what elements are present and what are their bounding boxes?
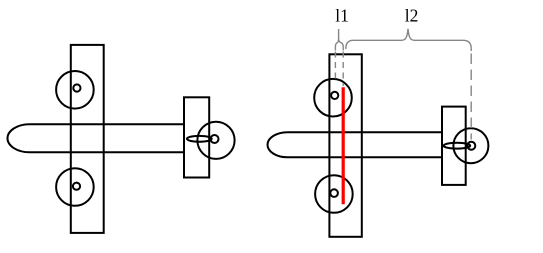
right aircraft wing	[329, 54, 361, 237]
left tailplane	[184, 97, 209, 177]
svg-text:l1: l1	[335, 6, 349, 26]
brace l2	[346, 29, 471, 51]
dashed extension line red line	[342, 52, 344, 87]
right tail propeller hub	[467, 142, 475, 150]
red reference line	[342, 87, 345, 204]
left bottom propeller hub	[73, 183, 80, 190]
right tail propeller blade	[444, 143, 471, 149]
right tailplane	[442, 107, 466, 185]
right bottom propeller hub	[330, 189, 338, 197]
left tail propeller blade	[187, 136, 212, 142]
left top propeller hub	[73, 84, 80, 91]
brace l1	[335, 29, 343, 51]
right bottom propeller disc	[315, 175, 353, 213]
left tail propeller hub	[211, 135, 219, 143]
left tail propeller disc	[197, 122, 234, 159]
dashed extension line engine axis	[334, 52, 336, 82]
left top propeller disc	[56, 71, 94, 109]
svg-text:l2: l2	[405, 6, 419, 26]
left aircraft fuselage	[8, 124, 185, 152]
right tail propeller disc	[453, 128, 488, 163]
right top propeller hub	[331, 92, 338, 99]
dashed extension line tail axis	[470, 54, 472, 140]
left bottom propeller disc	[56, 168, 94, 206]
right aircraft fuselage	[268, 132, 443, 157]
left aircraft wing	[71, 45, 104, 233]
right top propeller disc	[314, 79, 352, 117]
